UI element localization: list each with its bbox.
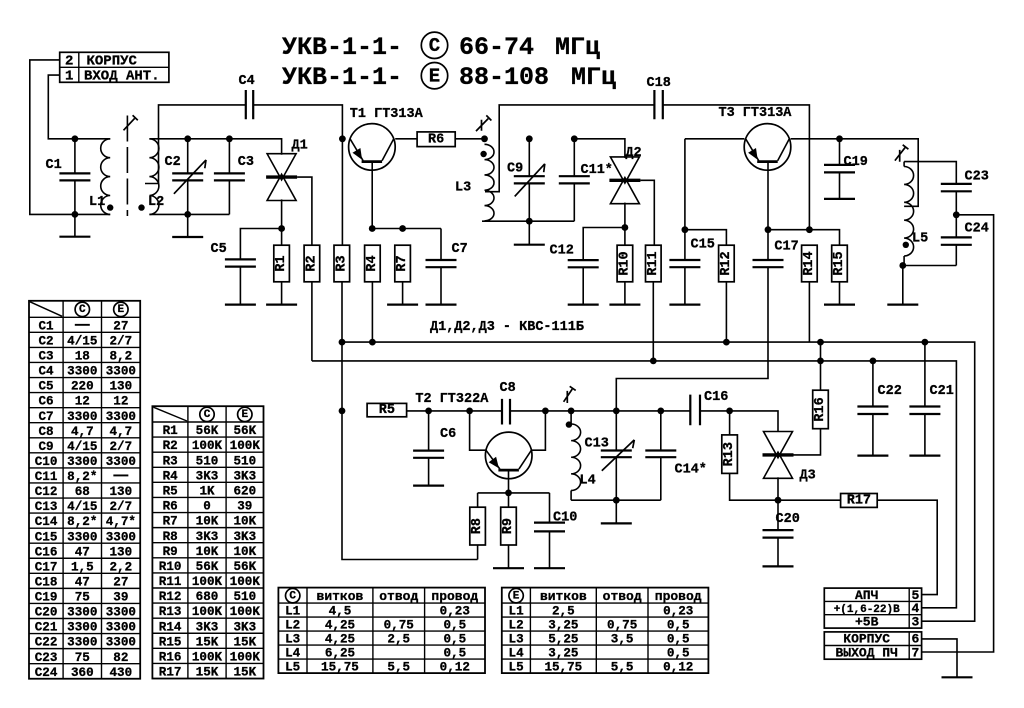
svg-text:0,5: 0,5 bbox=[443, 633, 466, 647]
ground under C6 bbox=[413, 485, 444, 487]
resistor R5 bbox=[367, 403, 407, 418]
svg-text:МГц: МГц bbox=[555, 33, 600, 62]
node D1 bottom bbox=[278, 225, 285, 232]
ground under C5 bbox=[225, 304, 256, 306]
variable arrow C9 bbox=[515, 164, 545, 197]
capacitor C22 bbox=[857, 407, 888, 415]
resistor R2 bbox=[304, 245, 320, 282]
wire R7 bottom lead bbox=[402, 282, 404, 305]
svg-text:360: 360 bbox=[71, 666, 94, 680]
svg-text:0,5: 0,5 bbox=[443, 647, 466, 661]
svg-text:3300: 3300 bbox=[67, 410, 97, 424]
svg-text:R1: R1 bbox=[274, 255, 289, 271]
wire rail L4 to C16 bbox=[571, 410, 690, 412]
wire pin2 to bottom rail bbox=[30, 60, 110, 215]
wire C22 bottom lead bbox=[872, 414, 874, 456]
svg-text:L1: L1 bbox=[509, 605, 525, 619]
svg-text:C11: C11 bbox=[35, 470, 58, 484]
svg-text:C16: C16 bbox=[704, 390, 728, 405]
wire C11 top lead bbox=[573, 139, 575, 176]
svg-text:Т1 ГТ313А: Т1 ГТ313А bbox=[350, 107, 424, 122]
wire tank ground lead bbox=[615, 500, 617, 523]
svg-text:1: 1 bbox=[65, 69, 73, 85]
capacitor C5 bbox=[225, 259, 256, 266]
node C1 top bbox=[72, 135, 79, 142]
capacitor C11* bbox=[559, 176, 590, 183]
node R11 rail2 bbox=[650, 358, 657, 365]
wire R17 to pin5 bbox=[877, 500, 937, 594]
svg-text:39: 39 bbox=[113, 591, 128, 605]
capacitor C18 bbox=[654, 90, 662, 119]
svg-text:27: 27 bbox=[113, 319, 128, 333]
svg-text:4/15: 4/15 bbox=[67, 440, 97, 454]
svg-text:АПЧ: АПЧ bbox=[855, 588, 878, 603]
node C2 top bbox=[184, 135, 191, 142]
svg-text:C23: C23 bbox=[965, 170, 989, 185]
node L3 top bbox=[481, 135, 488, 142]
variable arrow C2 bbox=[174, 160, 206, 194]
transistor T2 Т2 ГТ322А bbox=[415, 392, 532, 479]
node C9 top bbox=[526, 135, 533, 142]
wire main rail to D2 bbox=[574, 139, 625, 158]
wire D2 bar to R11 bbox=[640, 180, 654, 245]
wire input tank bottom rail bbox=[149, 213, 229, 215]
svg-text:4,7: 4,7 bbox=[110, 425, 133, 439]
svg-text:C16: C16 bbox=[35, 545, 58, 559]
ground under C21 bbox=[909, 455, 940, 457]
svg-text:C3: C3 bbox=[238, 155, 254, 170]
svg-text:C18: C18 bbox=[647, 76, 671, 91]
svg-text:R14: R14 bbox=[802, 251, 817, 275]
svg-text:C21: C21 bbox=[930, 384, 954, 399]
wire L4 top stub bbox=[570, 411, 572, 424]
node T1 emitter bbox=[339, 135, 346, 142]
svg-text:3300: 3300 bbox=[67, 455, 97, 469]
ground under C13 bbox=[601, 522, 632, 524]
ground under C10 bbox=[534, 567, 565, 569]
resistor R10 bbox=[617, 245, 633, 282]
svg-text:3300: 3300 bbox=[106, 606, 136, 620]
svg-text:L4: L4 bbox=[580, 474, 596, 489]
wire C3 top lead bbox=[228, 139, 230, 174]
wire C24 node to pin7 bbox=[922, 215, 994, 652]
wire C21 top lead bbox=[924, 342, 926, 406]
svg-text:0,23: 0,23 bbox=[663, 605, 693, 619]
svg-text:3300: 3300 bbox=[67, 636, 97, 650]
svg-text:C3: C3 bbox=[38, 350, 53, 364]
wire C10 bottom lead bbox=[549, 531, 551, 568]
svg-text:L4: L4 bbox=[285, 647, 301, 661]
svg-text:Д1,Д2,Д3 - КВС-111Б: Д1,Д2,Д3 - КВС-111Б bbox=[430, 320, 584, 335]
svg-text:Т2 ГТ322А: Т2 ГТ322А bbox=[415, 392, 489, 407]
ground under C2 bbox=[172, 236, 203, 238]
phasing dot L4 bbox=[566, 421, 572, 427]
svg-text:3300: 3300 bbox=[67, 365, 97, 379]
wire D1 bar to R2 bbox=[297, 177, 312, 245]
capacitor C2 bbox=[172, 173, 203, 180]
svg-text:Д3: Д3 bbox=[800, 469, 816, 484]
transistor T1 Т1 ГТ313А bbox=[349, 107, 424, 170]
svg-text:R2: R2 bbox=[304, 255, 319, 271]
ground pin6 bbox=[942, 676, 973, 678]
wire L3 tap to C18 bbox=[485, 105, 654, 192]
capacitor C14* bbox=[645, 451, 676, 458]
ground under R15 bbox=[824, 304, 855, 306]
svg-text:130: 130 bbox=[110, 485, 133, 499]
node R4 rail1 bbox=[369, 339, 376, 346]
svg-text:56K: 56K bbox=[233, 424, 256, 438]
svg-text:15,75: 15,75 bbox=[544, 661, 582, 675]
wire collector to L5 tap bbox=[840, 139, 919, 207]
svg-text:R17: R17 bbox=[159, 666, 182, 680]
resistor R14 bbox=[802, 245, 818, 282]
node C19 top bbox=[836, 135, 843, 142]
svg-text:C2: C2 bbox=[38, 334, 53, 348]
varactor diode Д1 bbox=[266, 139, 308, 201]
wire C20 top lead bbox=[777, 500, 779, 530]
wire C12 bottom lead bbox=[582, 267, 584, 304]
svg-text:27: 27 bbox=[113, 575, 128, 589]
wire R5 to C8 bbox=[407, 410, 502, 412]
svg-text:12: 12 bbox=[113, 395, 128, 409]
svg-text:47: 47 bbox=[75, 545, 90, 559]
svg-text:5,5: 5,5 bbox=[387, 661, 410, 675]
node C9 bottom bbox=[526, 218, 533, 225]
wire node to R12 bbox=[685, 230, 727, 246]
svg-text:5,5: 5,5 bbox=[611, 661, 634, 675]
node C13 bottom bbox=[613, 497, 620, 504]
resistor R6 bbox=[417, 132, 455, 147]
wire node to C12 bbox=[583, 228, 625, 261]
node R3 rail1 bbox=[339, 339, 346, 346]
svg-text:0,5: 0,5 bbox=[667, 619, 690, 633]
svg-text:6,25: 6,25 bbox=[325, 647, 355, 661]
svg-text:2: 2 bbox=[65, 54, 73, 70]
svg-text:R1: R1 bbox=[163, 424, 179, 438]
wire C17 to oscillator rail bbox=[616, 267, 768, 411]
svg-text:3K3: 3K3 bbox=[233, 469, 256, 483]
node T2 base bbox=[425, 408, 432, 415]
wire C6 top lead bbox=[428, 411, 430, 451]
svg-text:R12: R12 bbox=[159, 590, 182, 604]
wire T3 base lead bbox=[767, 162, 769, 230]
svg-text:2,5: 2,5 bbox=[387, 633, 410, 647]
svg-text:3K3: 3K3 bbox=[196, 620, 219, 634]
wire T3 emitter bbox=[685, 138, 745, 140]
wire R15 bottom lead bbox=[839, 282, 841, 305]
node C3 top bbox=[226, 135, 233, 142]
svg-text:3: 3 bbox=[911, 614, 919, 629]
svg-text:1,5: 1,5 bbox=[71, 560, 94, 574]
wire R14 to rail1 bbox=[808, 282, 810, 342]
svg-text:+5В: +5В bbox=[855, 614, 879, 629]
wire pin6 to ground bbox=[922, 639, 957, 677]
inductor L1 bbox=[89, 139, 110, 215]
svg-text:C7: C7 bbox=[38, 410, 53, 424]
svg-text:C12: C12 bbox=[35, 485, 58, 499]
svg-text:R9: R9 bbox=[501, 518, 516, 534]
svg-text:56K: 56K bbox=[196, 560, 219, 574]
svg-text:C13: C13 bbox=[585, 437, 609, 452]
wire C1 bottom lead bbox=[74, 180, 76, 236]
wire L5 ground lead bbox=[902, 266, 904, 305]
svg-text:3300: 3300 bbox=[106, 530, 136, 544]
svg-text:R13: R13 bbox=[159, 605, 182, 619]
phasing dot L1 bbox=[107, 204, 113, 210]
svg-text:680: 680 bbox=[196, 590, 219, 604]
phasing dot L2 bbox=[138, 204, 144, 210]
svg-text:R6: R6 bbox=[428, 132, 444, 147]
trimmer arrow L3 bbox=[476, 115, 491, 131]
capacitor C9 bbox=[514, 176, 545, 183]
svg-text:7: 7 bbox=[911, 645, 919, 660]
trimmer arrow L5 bbox=[895, 145, 909, 162]
svg-text:R10: R10 bbox=[617, 251, 632, 275]
svg-text:3K3: 3K3 bbox=[196, 469, 219, 483]
trimmer arrow L1-L2 bbox=[124, 115, 138, 130]
resistor R8 bbox=[470, 507, 486, 545]
capacitor C13 bbox=[601, 451, 632, 458]
wire C23 to C24 bbox=[955, 191, 957, 237]
svg-text:100K: 100K bbox=[192, 605, 223, 619]
svg-text:0,12: 0,12 bbox=[663, 661, 693, 675]
svg-text:C5: C5 bbox=[211, 242, 227, 257]
ground under C1 bbox=[59, 236, 90, 238]
resistor R17 bbox=[841, 493, 878, 508]
svg-text:10K: 10K bbox=[233, 545, 256, 559]
svg-text:R16: R16 bbox=[159, 650, 182, 664]
node C14 top bbox=[657, 408, 664, 415]
svg-text:56K: 56K bbox=[196, 424, 219, 438]
wire D2 to R10 bbox=[624, 203, 626, 246]
svg-text:R11: R11 bbox=[646, 251, 661, 275]
svg-text:C21: C21 bbox=[35, 621, 58, 635]
svg-text:2,5: 2,5 bbox=[552, 605, 575, 619]
svg-text:3300: 3300 bbox=[67, 606, 97, 620]
wire R3 bottom long run to R8 bbox=[342, 282, 478, 560]
svg-text:Е: Е bbox=[429, 65, 440, 87]
node C2 bottom bbox=[184, 211, 191, 218]
svg-text:Е: Е bbox=[241, 409, 248, 421]
wire L3 tank bottom rail bbox=[482, 220, 574, 222]
node C15 top bbox=[682, 226, 689, 233]
svg-text:Т3 ГТ313А: Т3 ГТ313А bbox=[719, 106, 793, 121]
wire R9 bottom lead bbox=[508, 545, 510, 568]
svg-text:15K: 15K bbox=[196, 666, 219, 680]
wire R2 to rail2 bbox=[311, 282, 313, 361]
transistor T3 Т3 ГТ313А bbox=[719, 106, 793, 170]
svg-text:56K: 56K bbox=[233, 560, 256, 574]
svg-text:430: 430 bbox=[110, 666, 133, 680]
svg-text:0,5: 0,5 bbox=[667, 647, 690, 661]
trimmer arrow L4 bbox=[564, 386, 576, 403]
svg-text:витков: витков bbox=[317, 589, 364, 604]
wire C5 bottom lead bbox=[239, 267, 241, 305]
wire R12 to rail1 bbox=[725, 282, 727, 342]
svg-text:L3: L3 bbox=[509, 633, 524, 647]
resistor R11 bbox=[646, 245, 662, 282]
node R16 rail1 bbox=[817, 339, 824, 346]
svg-text:УКВ-1-1-: УКВ-1-1- bbox=[282, 63, 402, 92]
svg-text:Е: Е bbox=[118, 304, 125, 316]
svg-text:220: 220 bbox=[71, 380, 94, 394]
wire C2 bottom lead bbox=[187, 180, 189, 237]
svg-text:C8: C8 bbox=[38, 425, 53, 439]
node R7 top bbox=[399, 225, 406, 232]
svg-text:отвод: отвод bbox=[379, 589, 418, 604]
svg-text:3300: 3300 bbox=[106, 410, 136, 424]
svg-text:C6: C6 bbox=[38, 395, 53, 409]
svg-text:C13: C13 bbox=[35, 500, 58, 514]
svg-text:R5: R5 bbox=[379, 403, 395, 418]
wire C15 top lead bbox=[684, 230, 686, 260]
svg-text:130: 130 bbox=[110, 545, 133, 559]
svg-text:8,2: 8,2 bbox=[110, 350, 133, 364]
svg-text:L2: L2 bbox=[509, 619, 524, 633]
wire L5 top to C23 bbox=[904, 162, 956, 184]
ground under C7 bbox=[426, 304, 457, 306]
wire C7 bottom lead bbox=[440, 267, 442, 304]
wire C21 bottom lead bbox=[924, 414, 926, 456]
capacitor C19 bbox=[824, 165, 855, 173]
svg-text:C24: C24 bbox=[965, 222, 989, 237]
output connector rows 6-7 bbox=[824, 632, 921, 661]
svg-text:3300: 3300 bbox=[106, 636, 136, 650]
svg-text:L1: L1 bbox=[89, 195, 105, 210]
svg-text:провод: провод bbox=[655, 589, 702, 604]
svg-text:3K3: 3K3 bbox=[196, 530, 219, 544]
phasing dot L3 bbox=[480, 151, 486, 157]
svg-text:L5: L5 bbox=[285, 661, 300, 675]
svg-text:0,23: 0,23 bbox=[440, 605, 470, 619]
svg-text:100K: 100K bbox=[230, 605, 261, 619]
svg-text:4,7: 4,7 bbox=[71, 425, 94, 439]
svg-text:R15: R15 bbox=[159, 635, 182, 649]
wire C8 to L4 bbox=[510, 410, 571, 412]
wire T1 node to R3 bbox=[341, 139, 343, 245]
wire down to C15 node bbox=[684, 139, 686, 230]
wire L5 bottom stub bbox=[903, 256, 905, 266]
svg-text:39: 39 bbox=[237, 500, 252, 514]
svg-text:L5: L5 bbox=[912, 232, 928, 247]
svg-text:3K3: 3K3 bbox=[233, 530, 256, 544]
svg-text:18: 18 bbox=[75, 350, 90, 364]
svg-text:R4: R4 bbox=[365, 255, 380, 271]
node C22 rail2 bbox=[870, 358, 877, 365]
svg-text:C14: C14 bbox=[35, 515, 58, 529]
wire C9 top lead bbox=[528, 139, 530, 176]
svg-text:100K: 100K bbox=[192, 650, 223, 664]
svg-text:0,12: 0,12 bbox=[440, 661, 470, 675]
svg-text:10K: 10K bbox=[196, 545, 219, 559]
svg-text:100K: 100K bbox=[192, 575, 223, 589]
wire C22 top lead bbox=[872, 361, 874, 407]
resistor R7 bbox=[395, 245, 411, 282]
svg-text:C19: C19 bbox=[35, 591, 58, 605]
wire C11 bottom lead bbox=[573, 183, 575, 221]
inductor L2 bbox=[148, 139, 164, 215]
svg-text:4,25: 4,25 bbox=[325, 633, 355, 647]
svg-text:4/15: 4/15 bbox=[67, 500, 97, 514]
svg-text:Д1: Д1 bbox=[292, 139, 308, 154]
wire T1 collector to R6 bbox=[395, 138, 417, 140]
wire C14 top lead bbox=[660, 411, 662, 451]
node C21 rail1 bbox=[922, 339, 929, 346]
wire rail2 to pin4 bbox=[312, 361, 957, 608]
svg-text:C4: C4 bbox=[38, 365, 54, 379]
svg-text:C23: C23 bbox=[35, 651, 58, 665]
svg-text:3300: 3300 bbox=[106, 621, 136, 635]
wire T2 emitter lead bbox=[470, 411, 486, 450]
resistor value table bbox=[152, 406, 263, 679]
svg-text:3300: 3300 bbox=[67, 530, 97, 544]
wire base node row to C7 bbox=[372, 228, 441, 230]
wire R6 to L3 bbox=[455, 138, 484, 140]
svg-text:C12: C12 bbox=[550, 244, 574, 259]
svg-text:82: 82 bbox=[113, 651, 128, 665]
svg-text:R5: R5 bbox=[163, 485, 178, 499]
resistor R4 bbox=[365, 245, 381, 282]
wire C16 to D3 bbox=[700, 411, 778, 432]
wire node to R17 bbox=[778, 499, 841, 501]
svg-text:C22: C22 bbox=[35, 636, 58, 650]
capacitor C23 bbox=[941, 184, 972, 191]
varactor diode Д3 bbox=[763, 432, 816, 484]
wire C13 top lead bbox=[615, 411, 617, 451]
svg-text:4,25: 4,25 bbox=[325, 619, 355, 633]
svg-text:0,75: 0,75 bbox=[607, 619, 637, 633]
svg-text:C4: C4 bbox=[239, 74, 255, 89]
svg-text:провод: провод bbox=[431, 589, 478, 604]
wire C1 top lead bbox=[74, 139, 76, 174]
svg-text:Е: Е bbox=[513, 590, 520, 602]
svg-text:R6: R6 bbox=[163, 500, 178, 514]
node C8 left bbox=[466, 408, 473, 415]
svg-text:R11: R11 bbox=[159, 575, 182, 589]
svg-text:С: С bbox=[289, 590, 296, 602]
svg-text:С: С bbox=[204, 409, 211, 421]
svg-text:УКВ-1-1-: УКВ-1-1- bbox=[282, 33, 402, 62]
title line 1 bbox=[282, 32, 600, 62]
svg-text:66-74: 66-74 bbox=[459, 33, 534, 62]
svg-text:R3: R3 bbox=[163, 454, 178, 468]
svg-text:C20: C20 bbox=[776, 512, 800, 527]
wire L4 bottom stub bbox=[570, 491, 572, 501]
variable arrow C13 bbox=[602, 440, 635, 471]
capacitor C3 bbox=[214, 173, 245, 180]
wire C9 bottom lead bbox=[528, 183, 530, 221]
wire C20 bottom lead bbox=[777, 538, 779, 567]
svg-text:C10: C10 bbox=[35, 455, 58, 469]
wire R1 bottom lead bbox=[281, 282, 283, 305]
svg-text:100K: 100K bbox=[230, 575, 261, 589]
inductor L3 bbox=[455, 144, 494, 221]
wire T2 collector lead bbox=[532, 411, 546, 450]
node C11 top bbox=[571, 135, 578, 142]
coil table E version bbox=[502, 588, 709, 675]
node C23-C24 bbox=[953, 211, 960, 218]
svg-text:R7: R7 bbox=[395, 255, 410, 271]
svg-text:R8: R8 bbox=[470, 518, 485, 534]
capacitor C20 bbox=[763, 530, 794, 538]
node T2 base bottom bbox=[505, 490, 512, 497]
ground under R9 bbox=[493, 567, 524, 569]
wire R4 to rail1 bbox=[371, 282, 373, 342]
svg-text:C8: C8 bbox=[500, 381, 516, 396]
node D2 bottom bbox=[622, 224, 629, 231]
ground under R7 bbox=[387, 304, 418, 306]
svg-text:C10: C10 bbox=[553, 511, 577, 526]
